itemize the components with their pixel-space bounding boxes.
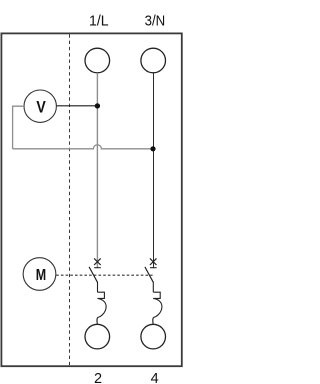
breaker pole 2 blade <box>145 267 153 282</box>
dashed separator line <box>69 34 71 366</box>
bottom terminal circle 2 <box>85 324 110 349</box>
wire N vertical <box>153 73 155 268</box>
breaker pole 1 blade <box>89 267 97 282</box>
breaker pole 1 magnetic bump <box>97 298 106 324</box>
breaker pole 2 magnetic bump <box>153 298 162 324</box>
svg-text:V: V <box>36 99 46 117</box>
node on L <box>95 103 100 108</box>
voltmeter V <box>24 90 56 122</box>
terminal circle 1/L <box>85 48 110 73</box>
frame border <box>1 33 181 366</box>
breaker pole 1 contact x <box>94 258 101 265</box>
node on N <box>150 146 155 151</box>
wire V left loop <box>13 106 24 149</box>
breaker pole 2 tick <box>150 267 157 269</box>
breaker pole 1 tick <box>94 267 101 269</box>
svg-text:3/N: 3/N <box>145 13 166 29</box>
svg-text:4: 4 <box>151 371 159 384</box>
motor M <box>23 258 56 291</box>
breaker pole 2 contact x <box>150 258 157 265</box>
svg-text:2: 2 <box>94 371 102 384</box>
svg-text:1/L: 1/L <box>89 13 109 29</box>
breaker pole 2 lower wire <box>152 282 154 292</box>
bottom terminal circle 4 <box>141 324 166 349</box>
wire loop bottom with hop <box>13 145 153 149</box>
breaker pole 1 lower wire <box>97 282 99 292</box>
breaker pole 2 thermal notch <box>153 292 160 298</box>
svg-text:M: M <box>36 266 46 284</box>
dashed linkage M to breakers <box>56 274 152 276</box>
wire L vertical <box>96 73 98 268</box>
breaker pole 1 thermal notch <box>98 292 105 298</box>
wire V to node <box>56 105 97 107</box>
terminal circle 3/N <box>141 48 166 73</box>
